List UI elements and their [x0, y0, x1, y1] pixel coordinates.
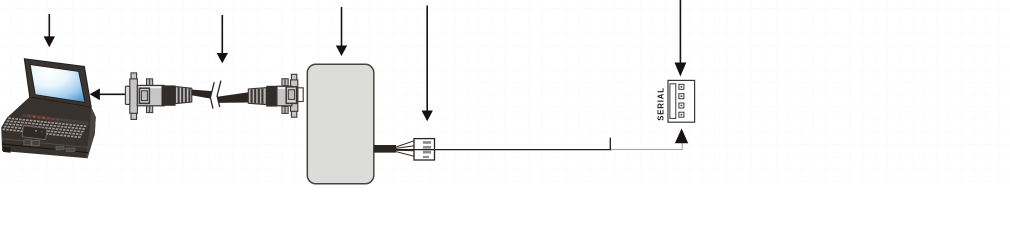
callout arrow 5 (to serial header)	[675, 0, 687, 77]
laptop battery nub	[3, 147, 11, 153]
laptop indicator lights	[29, 115, 59, 121]
pin 4	[679, 112, 684, 117]
bottom thumbscrew	[282, 106, 288, 113]
pin 2	[679, 94, 684, 99]
arrow from cable to laptop	[90, 88, 126, 100]
laptop trackpad	[22, 126, 47, 140]
laptop keyboard keys	[2, 117, 86, 138]
laptop lid	[24, 59, 91, 107]
laptop hinge strip	[22, 113, 88, 125]
callout arrow 4 (to 4-pin connector)	[422, 6, 433, 122]
callout arrow 2 (to cable)	[217, 15, 228, 63]
DB9 connector left (laptop end of cable)	[125, 73, 191, 120]
bottom thumbscrew	[147, 106, 153, 113]
callout arrow 1 (to laptop)	[44, 14, 55, 47]
face plate	[125, 86, 129, 104]
pin 1	[679, 84, 684, 89]
body	[137, 85, 164, 105]
boot	[162, 85, 176, 105]
flange bottom nub	[131, 113, 137, 119]
laptop	[1, 59, 96, 159]
pin 3	[679, 103, 684, 108]
boot	[266, 86, 277, 107]
cable right segment	[217, 92, 248, 103]
flange top nub	[291, 74, 296, 80]
laptop front edge seams	[2, 139, 88, 148]
wire to serial header (black)	[396, 149, 611, 151]
face plate	[298, 88, 303, 102]
callout arrow 3 (to adapter box)	[336, 7, 347, 56]
strain relief ribs	[248, 88, 266, 105]
laptop screen	[30, 65, 85, 103]
adapter output cable	[374, 145, 396, 153]
cable break symbol	[210, 81, 221, 109]
strain relief ribs	[176, 87, 192, 104]
flange bottom nub	[291, 111, 296, 117]
wire end tick	[609, 138, 611, 151]
gray wire with up arrow	[611, 128, 688, 149]
adapter box	[307, 64, 374, 184]
serial header connector	[668, 80, 695, 122]
cable left segment	[192, 90, 214, 100]
laptop drive bays	[24, 140, 31, 145]
flange top nub	[131, 73, 137, 79]
fan-out wires	[396, 141, 414, 156]
top thumbscrew	[147, 79, 153, 86]
flange	[130, 79, 138, 113]
DB9 connector right (adapter end of cable)	[248, 74, 303, 117]
flange	[291, 80, 298, 111]
laptop right side panel	[86, 107, 96, 158]
top thumbscrew	[282, 79, 288, 86]
square detail	[139, 88, 149, 103]
4-pin connector	[414, 139, 435, 160]
body	[277, 86, 292, 106]
svg-text:SERIAL: SERIAL	[656, 87, 665, 121]
laptop body deck and front	[1, 97, 96, 158]
square detail	[286, 87, 296, 104]
